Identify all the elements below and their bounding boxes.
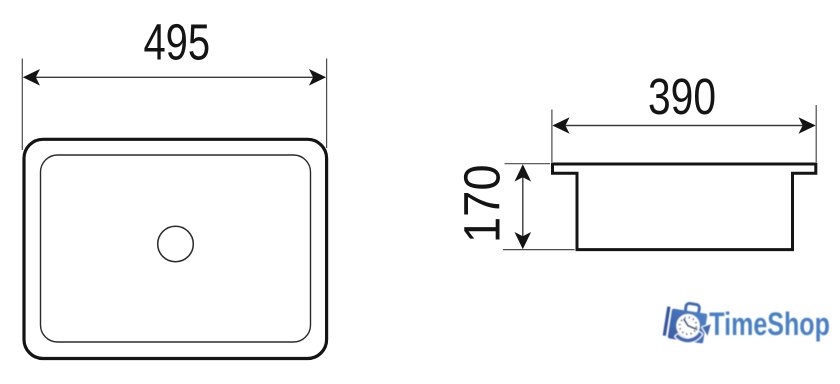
svg-text:TimeShop: TimeShop [709, 307, 830, 343]
svg-text:170: 170 [455, 164, 511, 243]
svg-text:390: 390 [648, 68, 716, 125]
svg-text:495: 495 [143, 14, 210, 71]
